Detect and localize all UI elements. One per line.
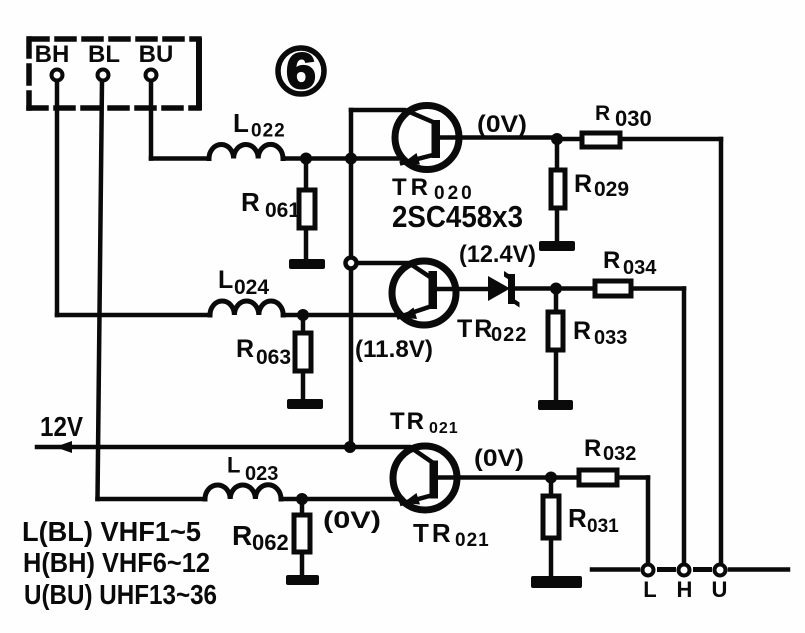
svg-text:021: 021 [429,420,459,437]
svg-text:L: L [233,108,249,138]
svg-text:L: L [643,577,656,602]
svg-text:061: 061 [265,199,300,222]
svg-text:(0V): (0V) [477,111,527,138]
svg-text:TR: TR [392,174,432,201]
svg-text:023: 023 [245,463,278,485]
svg-text:U(BU) UHF13~36: U(BU) UHF13~36 [24,579,217,610]
svg-text:032: 032 [603,443,636,465]
svg-text:030: 030 [615,106,652,131]
svg-text:R: R [568,503,587,533]
svg-text:R: R [595,102,610,125]
svg-text:U: U [712,577,728,602]
svg-text:L(BL) VHF1~5: L(BL) VHF1~5 [22,516,201,547]
svg-text:062: 062 [252,530,289,555]
svg-text:(12.4V): (12.4V) [459,241,536,268]
svg-text:R: R [232,520,252,551]
svg-text:R: R [236,335,254,363]
svg-text:021: 021 [455,530,490,551]
svg-text:R: R [573,317,591,345]
svg-text:034: 034 [623,257,657,279]
svg-text:031: 031 [587,516,619,537]
svg-text:024: 024 [234,276,269,299]
svg-text:R: R [603,247,620,274]
svg-text:H(BH) VHF6~12: H(BH) VHF6~12 [23,547,210,578]
svg-text:R: R [574,170,592,198]
svg-text:L: L [227,453,240,478]
svg-text:022: 022 [491,324,527,346]
svg-text:2SC458x3: 2SC458x3 [392,199,523,234]
svg-text:TR: TR [457,315,494,343]
svg-text:(11.8V): (11.8V) [355,336,433,363]
svg-text:H: H [677,577,693,602]
svg-text:BH: BH [35,41,70,68]
svg-text:022: 022 [251,121,286,142]
svg-text:BU: BU [139,41,174,68]
svg-text:L: L [218,266,233,294]
svg-text:6: 6 [286,43,316,99]
svg-text:TR: TR [390,408,426,435]
svg-text:(0V): (0V) [323,507,381,534]
svg-text:12V: 12V [40,411,83,442]
svg-text:063: 063 [256,346,291,369]
svg-text:TR: TR [413,518,454,548]
svg-text:(0V): (0V) [474,445,524,472]
svg-text:R: R [241,187,260,217]
svg-text:029: 029 [594,178,629,201]
svg-text:BL: BL [88,41,120,68]
svg-text:R: R [584,435,601,462]
svg-text:033: 033 [594,327,627,349]
